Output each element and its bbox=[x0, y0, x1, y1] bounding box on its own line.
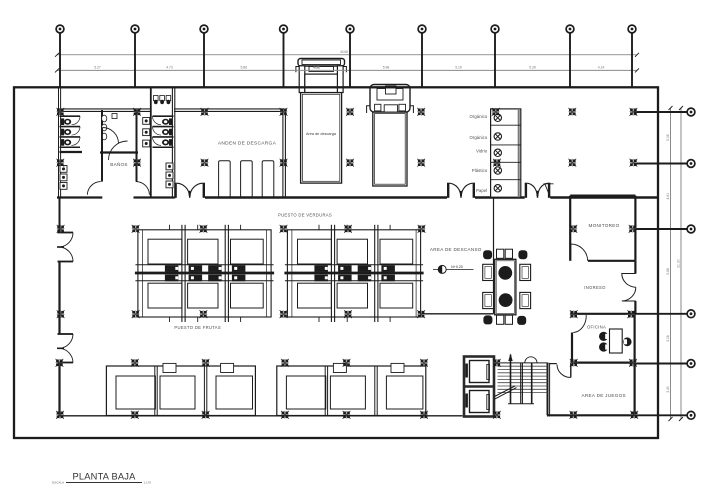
svg-text:Papel: Papel bbox=[476, 188, 487, 193]
svg-text:5.39: 5.39 bbox=[529, 66, 536, 70]
svg-text:Orgánico: Orgánico bbox=[470, 114, 488, 119]
svg-text:40.66: 40.66 bbox=[340, 50, 348, 54]
svg-text:N+0.20: N+0.20 bbox=[451, 265, 463, 269]
svg-text:BAÑOS: BAÑOS bbox=[110, 161, 128, 167]
svg-text:4.06: 4.06 bbox=[313, 66, 320, 70]
svg-text:5.98: 5.98 bbox=[383, 66, 390, 70]
svg-text:MONITOREO: MONITOREO bbox=[589, 223, 620, 228]
svg-text:21.30: 21.30 bbox=[676, 259, 680, 268]
svg-text:4.61: 4.61 bbox=[666, 193, 670, 200]
svg-text:PUESTO DE VERDURAS: PUESTO DE VERDURAS bbox=[278, 213, 332, 218]
svg-text:ANDEN DE DESCARGA: ANDEN DE DESCARGA bbox=[218, 141, 277, 147]
svg-text:PUESTO DE FRUTAS: PUESTO DE FRUTAS bbox=[174, 325, 221, 330]
svg-text:Vidrio: Vidrio bbox=[476, 148, 488, 153]
svg-text:3.40: 3.40 bbox=[666, 386, 670, 393]
svg-text:5.27: 5.27 bbox=[94, 66, 101, 70]
svg-text:1:170: 1:170 bbox=[144, 481, 152, 485]
svg-text:Area de descarga: Area de descarga bbox=[306, 132, 337, 136]
svg-text:4.73: 4.73 bbox=[166, 66, 173, 70]
svg-text:INGRESO: INGRESO bbox=[584, 285, 606, 290]
svg-text:4.14: 4.14 bbox=[598, 66, 605, 70]
svg-text:AREA DE JUEGOS: AREA DE JUEGOS bbox=[582, 393, 626, 398]
svg-text:OFICINA: OFICINA bbox=[587, 324, 606, 329]
svg-text:5.86: 5.86 bbox=[240, 66, 247, 70]
svg-text:3.08: 3.08 bbox=[666, 134, 670, 141]
svg-text:5.19: 5.19 bbox=[455, 66, 462, 70]
svg-text:AREA DE DESCANSO: AREA DE DESCANSO bbox=[430, 247, 482, 252]
svg-text:PLANTA BAJA: PLANTA BAJA bbox=[73, 471, 137, 481]
svg-text:Plástico: Plástico bbox=[472, 168, 488, 173]
svg-text:5.88: 5.88 bbox=[666, 268, 670, 275]
svg-text:3.08: 3.08 bbox=[666, 335, 670, 342]
svg-text:Orgánico: Orgánico bbox=[470, 135, 488, 140]
svg-text:ESCALA: ESCALA bbox=[52, 481, 64, 485]
